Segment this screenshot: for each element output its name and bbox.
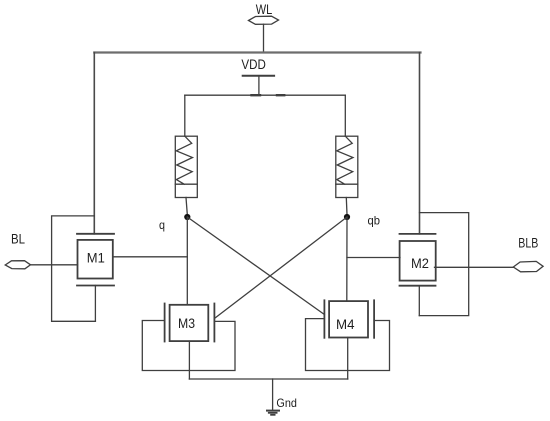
svg-text:q: q <box>159 218 165 232</box>
node q (junction dot) <box>184 214 190 220</box>
power symbol VDD (bar) <box>243 75 274 77</box>
terminal BLB (hexagon) <box>513 261 543 271</box>
transistor M2 (access, right) <box>400 234 436 286</box>
svg-text:M4: M4 <box>336 317 355 332</box>
wire R1 bottom to node q <box>186 198 187 215</box>
transistor M3 (driver, left) <box>165 304 215 342</box>
terminal BL (hexagon) <box>5 261 30 269</box>
transistor M4 (driver, right) <box>324 300 374 338</box>
wire M3 bracket <box>142 321 235 371</box>
wire left gate drop (WL rail to M1 top plate) <box>93 53 95 234</box>
svg-text:qb: qb <box>368 214 381 228</box>
svg-text:M2: M2 <box>411 256 429 271</box>
wire ground stub <box>272 379 274 411</box>
wire WL rail (top horizontal) <box>94 51 420 53</box>
terminal WL (hexagon) <box>249 16 279 24</box>
wire M2 drain to BLB <box>435 266 514 268</box>
svg-text:M1: M1 <box>87 251 105 266</box>
wire M1 bottom plate drop <box>94 286 96 322</box>
wire M3 source down to ground rail <box>188 341 190 379</box>
wire VDD rail left drop (to R1 top) <box>184 95 186 136</box>
wire M2 bottom plate drop <box>418 286 420 316</box>
junction tick on VDD rail (right) <box>277 94 284 96</box>
svg-text:WL: WL <box>256 2 273 17</box>
wire VDD rail (horizontal) <box>185 94 345 96</box>
wire right gate drop (WL rail to M2 top plate) <box>419 53 421 234</box>
ground symbol <box>267 411 279 415</box>
wire M4 source down to ground rail <box>347 338 349 380</box>
svg-text:VDD: VDD <box>241 57 266 72</box>
svg-text:BL: BL <box>11 232 25 247</box>
svg-text:Gnd: Gnd <box>276 396 297 410</box>
wire VDD stub (bar to VDD rail) <box>258 76 260 96</box>
wire M4 bracket <box>306 319 390 371</box>
wire VDD rail right drop (to R2 top) <box>344 95 346 136</box>
wire node qb to M2 <box>347 257 400 259</box>
svg-text:M3: M3 <box>178 316 195 331</box>
wire node qb down to M4 gate <box>346 217 348 301</box>
transistor M1 (access, left) <box>77 234 114 286</box>
wire M2 gate bracket <box>419 213 468 316</box>
junction tick on VDD rail (left) <box>252 94 261 96</box>
resistor R1 (left load) <box>175 136 197 197</box>
wire M1 gate bracket <box>52 216 96 321</box>
resistor R2 (right load) <box>336 136 358 197</box>
node qb (junction dot) <box>344 214 350 220</box>
wire BL to M1 source <box>31 264 78 266</box>
wire node q down to M3 gate <box>186 217 188 305</box>
wire ground rail <box>189 378 347 380</box>
wire R2 bottom to node qb <box>345 198 348 215</box>
svg-text:BLB: BLB <box>518 236 538 251</box>
wire WL stub (hexagon to WL rail) <box>263 24 265 52</box>
wire M1 drain to node q <box>113 256 188 258</box>
wire cross-couple q to M4 left plate <box>187 217 324 315</box>
wire cross-couple qb to M3 right plate <box>214 217 347 319</box>
